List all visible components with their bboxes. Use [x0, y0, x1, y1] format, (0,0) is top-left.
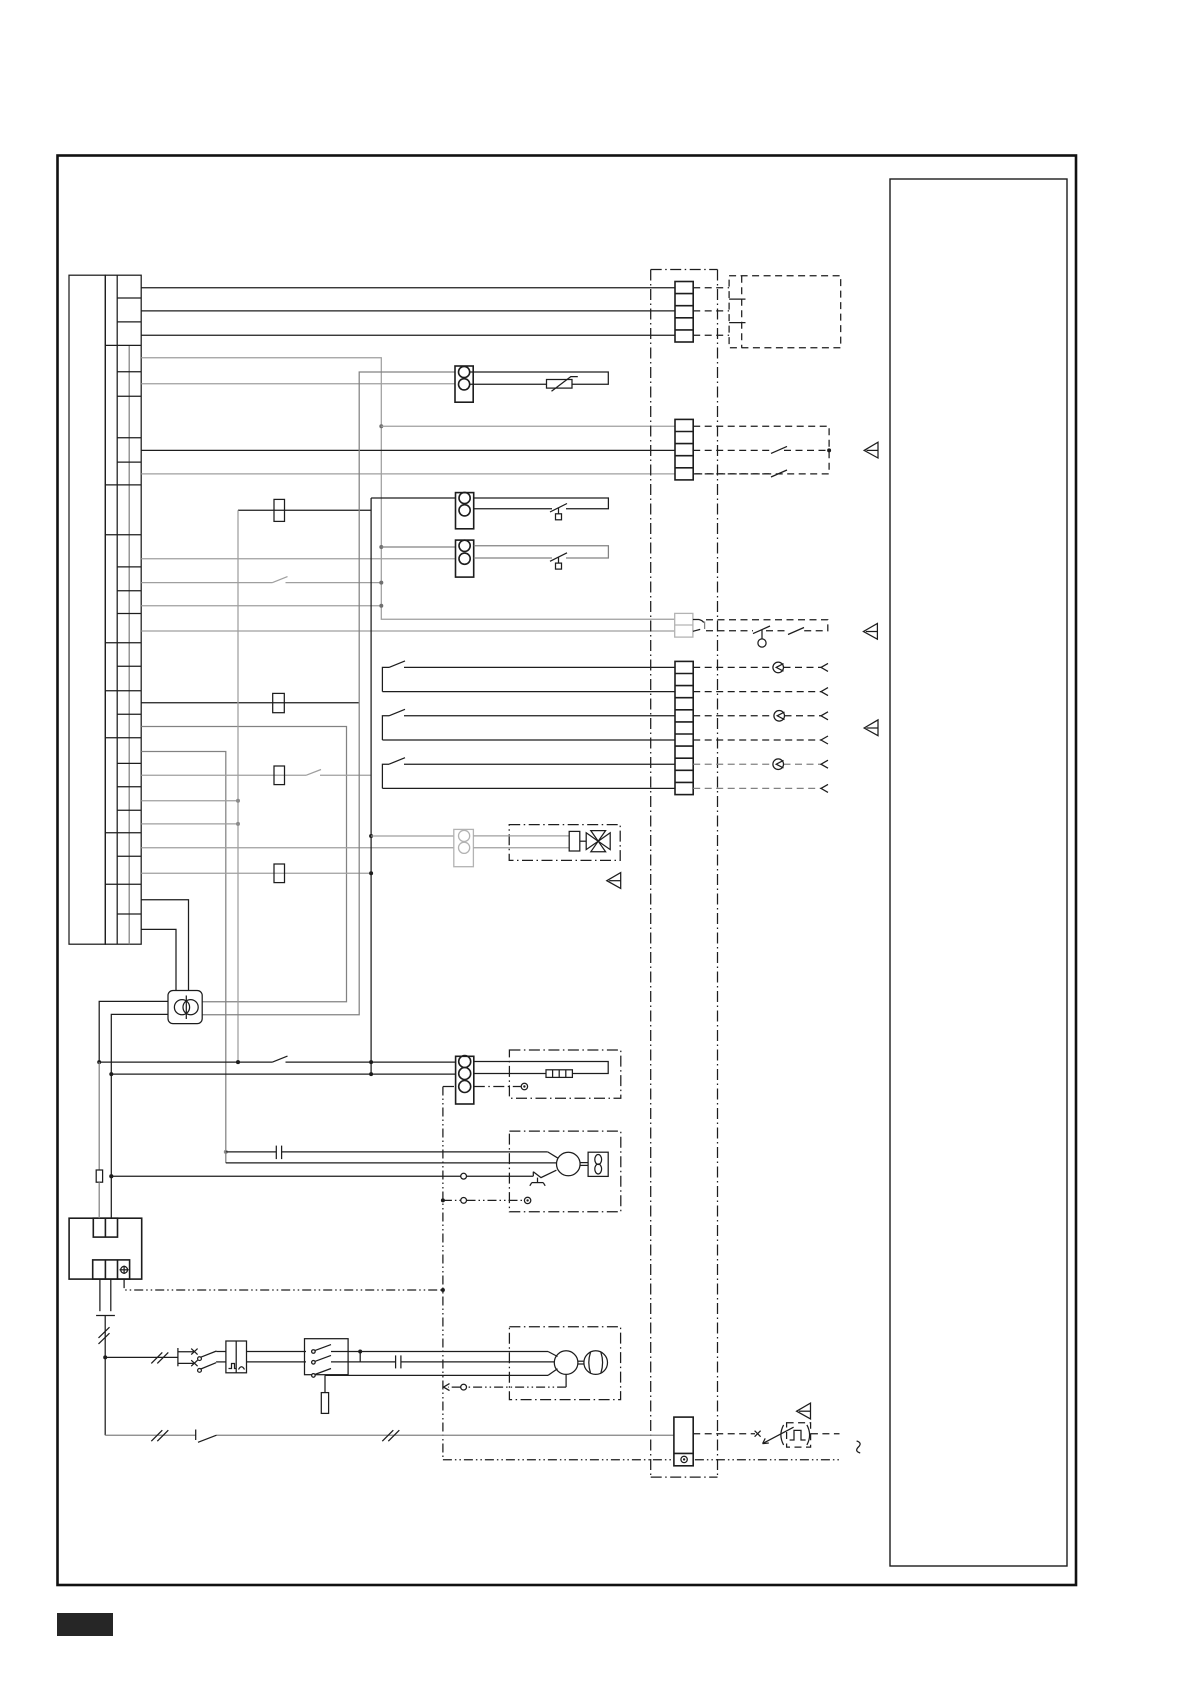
compressor motor — [554, 1351, 578, 1375]
valve body (4-way) — [580, 831, 610, 852]
warning triangle 2 — [863, 623, 877, 639]
isolator Q2 — [177, 1348, 179, 1366]
wire with relay K1 to bus B2 — [141, 702, 359, 704]
bus B2 junction dots — [369, 834, 373, 1076]
supply line N — [110, 1074, 112, 1218]
wire to transformer TR1 primary A — [141, 727, 346, 1002]
remote controller lead (dashed) — [693, 1433, 755, 1435]
phase wire to isolator — [105, 1356, 178, 1358]
cell dividers right column — [117, 298, 141, 914]
pump P1 unit box (dash-dot) — [509, 1131, 620, 1212]
relay K2 — [274, 766, 285, 785]
dashed outputs X2D with lamps — [693, 667, 821, 740]
bus B1 vertical gray x381 — [379, 424, 383, 608]
protective earth bus (dash-dot-dot) — [442, 1087, 444, 1460]
battery / mains entry — [99, 1279, 101, 1311]
heater loop — [474, 1062, 608, 1074]
supply fuse F1 — [98, 1062, 100, 1170]
wire gray tap2 to bus B3 — [141, 823, 238, 825]
compressor M1 unit box (dash-dot) — [509, 1327, 620, 1400]
warning triangle 4 — [607, 873, 621, 889]
U loop 2 with contact — [404, 715, 675, 717]
pump P1 earth lead (dash-dot) — [443, 1199, 461, 1201]
wire gray to valve connector pin2 — [141, 847, 454, 849]
dashed loop X2B with contacts — [693, 426, 829, 474]
plug hooks X2C — [693, 619, 699, 621]
compressor earth lead (dash-dot-dot) — [565, 1374, 567, 1387]
connector X2A — [675, 282, 693, 343]
valve unit box (dash-dot) — [509, 825, 620, 861]
connector X2C — [675, 613, 693, 637]
lamp H3 — [773, 759, 784, 770]
wire to transformer TR1 top B — [141, 929, 176, 990]
bus B5 vertical x359 transformer to sensor R1 — [202, 372, 455, 1015]
warning triangle 5 — [797, 1403, 811, 1419]
earth point — [521, 1083, 527, 1089]
terminal ticks — [729, 298, 745, 300]
wire L1 to connector X2A pin1 — [141, 287, 675, 289]
legend box (empty) — [890, 179, 1067, 1566]
lamp H1 — [773, 662, 784, 673]
supply tap to pump wire — [110, 1175, 112, 1177]
adapter symbol — [781, 1425, 784, 1445]
bus B4 feeds — [224, 1150, 228, 1154]
transformer TR1 — [168, 991, 202, 1024]
wire to bus B4 — [141, 752, 226, 1152]
valve leads — [473, 835, 569, 837]
plug chevrons — [821, 663, 828, 792]
thermistor R1 body — [547, 380, 573, 389]
heater unit box (dash-dot) — [509, 1050, 620, 1098]
connector X2D (11 poles) — [675, 661, 693, 794]
dashed loop X2C flow switch — [706, 620, 828, 631]
sensor connector R3 — [456, 540, 474, 577]
wire gray to node bus B1 — [141, 358, 675, 619]
wire with relay K3 to bus B2 — [141, 872, 371, 874]
dashed leads X2A — [693, 287, 729, 289]
wire bus B1 to sensor R3 pin1 — [381, 546, 455, 548]
sensor connector R1 — [455, 366, 473, 402]
run capacitor C1 — [395, 1355, 397, 1368]
pump P1 motor — [557, 1152, 581, 1176]
heater connector E1 — [456, 1056, 474, 1105]
fuse block F2 — [226, 1341, 247, 1373]
mounting rail — [69, 275, 105, 944]
wire L2 to connector X2A pin3 — [141, 310, 675, 312]
black label block bottom-left — [57, 1613, 113, 1636]
relay K3 — [274, 864, 285, 883]
relay K1 — [273, 693, 285, 712]
wire L3 to connector X2A pin5 — [141, 334, 675, 336]
fan symbol — [588, 1152, 608, 1176]
main supply wire L-N to heater connector — [99, 1061, 272, 1063]
heater element — [546, 1070, 572, 1078]
wire black to connector X2B pin3 — [141, 449, 675, 451]
terminal block column — [105, 275, 141, 944]
lamp H2 — [774, 711, 785, 722]
connector X2B — [675, 419, 693, 480]
compressor pump — [584, 1351, 608, 1375]
float switch R2 loop — [474, 498, 609, 509]
wires fuse to contactor — [247, 1351, 307, 1353]
wire gray with contact to bus B1 — [141, 582, 272, 584]
remote box (dashed) — [729, 276, 841, 348]
group dividers across both columns — [105, 345, 141, 884]
wire bus B1 to connector X2B pin1 — [381, 425, 675, 427]
cable slash marks — [99, 1327, 110, 1338]
column divider — [116, 275, 118, 944]
earth terminal in box — [120, 1266, 129, 1274]
contactor K10 — [305, 1339, 349, 1375]
wire to transformer TR1 top A — [141, 900, 188, 991]
centre screw line — [128, 345, 130, 944]
bus B3 vertical gray x238 with fuse wire — [238, 509, 371, 511]
wire gray to sensor R3 pin2 — [141, 558, 455, 560]
wire gray to sensor R1 pin2 — [141, 383, 455, 385]
warning triangle 1 — [864, 442, 878, 458]
main switch box Q1 — [69, 1218, 142, 1279]
continuation squiggle — [857, 1441, 861, 1453]
valve actuator — [569, 831, 580, 851]
U loop 1 with contact — [404, 666, 675, 668]
contactor coil K10 — [324, 1375, 326, 1392]
pump P1 run wire with thermal contact — [111, 1175, 460, 1177]
wire gray to connector X2B pin5 — [141, 473, 675, 475]
unit boundary (dash-dot) — [650, 270, 652, 1478]
bus B2 vertical x371 — [370, 498, 372, 1074]
aux contact — [788, 628, 804, 635]
bottom connector X3 — [674, 1417, 693, 1466]
wire gray to connector X2C pin2 — [141, 630, 675, 632]
wire with relay K2 and contact to bus B2 — [141, 774, 306, 776]
warning triangle 3 — [864, 720, 878, 736]
capacitor contact — [275, 1146, 277, 1160]
fuse F3 — [274, 499, 285, 521]
thermistor R1 loop — [470, 372, 609, 384]
contactor outputs — [331, 1351, 360, 1353]
wire bus B2 to sensor R2 pin1 — [371, 497, 455, 499]
bottom pilot wire — [105, 1434, 196, 1436]
U loop 3 with contact — [404, 763, 675, 765]
valve connector Y1 — [454, 829, 474, 866]
heater earth lead (dash-dot) — [443, 1086, 456, 1088]
wire bus B2 to valve connector pin1 — [371, 835, 454, 837]
transformer TR1 secondary left wires — [99, 1001, 168, 1062]
sensor connector R2 — [456, 492, 474, 528]
float switch R3 loop — [474, 546, 609, 558]
wire gray to bus B1 — [141, 605, 381, 607]
thermal cutout contact — [532, 1172, 534, 1177]
flow switch contact with bulb — [753, 626, 770, 634]
page border frame — [58, 156, 1077, 1586]
wire gray tap1 to bus B3 — [141, 800, 238, 802]
third pole wire — [325, 1374, 548, 1376]
